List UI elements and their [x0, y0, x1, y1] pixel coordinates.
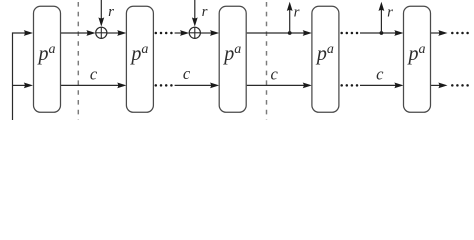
svg-text:c: c — [183, 64, 191, 83]
svg-text:c: c — [271, 65, 279, 84]
svg-text:r: r — [202, 4, 208, 20]
svg-text:r: r — [294, 5, 300, 21]
svg-text:r: r — [108, 4, 114, 20]
svg-text:c: c — [90, 65, 98, 84]
svg-text:r: r — [387, 5, 393, 21]
svg-text:c: c — [376, 65, 384, 84]
